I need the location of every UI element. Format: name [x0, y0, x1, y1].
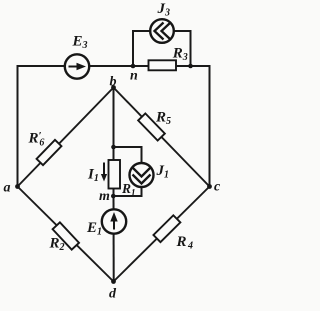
- wire: E3 to node n: [89, 65, 133, 67]
- wire: diagonal a-b: [18, 88, 114, 187]
- current source J1: [130, 163, 154, 187]
- wire: J3 loop right side down to junction: [174, 31, 191, 66]
- svg-text:m: m: [99, 189, 110, 204]
- junction dot right of R3: [188, 64, 193, 69]
- wire: left edge a to top-left corner: [17, 66, 19, 187]
- resistor R'6: [37, 140, 62, 165]
- svg-text:E1: E1: [86, 220, 102, 238]
- resistor R4: [153, 215, 180, 242]
- node n: [131, 64, 136, 69]
- current source J3: [150, 19, 174, 43]
- resistor R1: [109, 160, 121, 189]
- svg-text:b: b: [110, 74, 117, 89]
- node a: [15, 184, 20, 189]
- wire: R3 to top-right corner, down right edge to c: [176, 66, 210, 187]
- resistor R2: [53, 222, 79, 249]
- wire: diagonal b-c: [114, 88, 210, 187]
- svg-text:c: c: [214, 180, 221, 195]
- svg-text:a: a: [4, 181, 11, 196]
- node m: [111, 194, 116, 199]
- svg-text:E3: E3: [72, 34, 88, 52]
- wire: diagonal a-d: [18, 187, 114, 282]
- svg-text:J3: J3: [157, 1, 171, 19]
- svg-text:R3: R3: [172, 46, 188, 64]
- node d: [111, 279, 116, 284]
- current arrow I1: [103, 163, 105, 176]
- junction dot top of parallel section: [111, 145, 116, 150]
- svg-text:R5: R5: [155, 110, 171, 128]
- wire: J1 branch: [114, 147, 142, 196]
- wire: J3 loop left vertical from n up: [133, 31, 151, 66]
- wire: n to R3: [133, 65, 149, 67]
- wire: middle branch b down to parallel junction and through to m: [113, 88, 115, 197]
- wire: top-left corner to E3: [17, 65, 66, 67]
- resistor R3: [149, 60, 177, 70]
- wire: diagonal d-c: [114, 187, 210, 282]
- voltage source E1: [102, 209, 126, 233]
- voltage source E3: [65, 54, 89, 78]
- svg-text:n: n: [130, 69, 138, 84]
- svg-text:I1: I1: [87, 167, 99, 185]
- node b: [111, 85, 116, 90]
- svg-text:d: d: [109, 287, 117, 302]
- svg-text:R4: R4: [176, 234, 194, 252]
- wire: m down through E1 to d: [113, 196, 115, 282]
- node c: [207, 184, 212, 189]
- svg-text:R′6: R′6: [28, 130, 45, 148]
- resistor R5: [138, 113, 165, 140]
- svg-text:J1: J1: [156, 163, 170, 181]
